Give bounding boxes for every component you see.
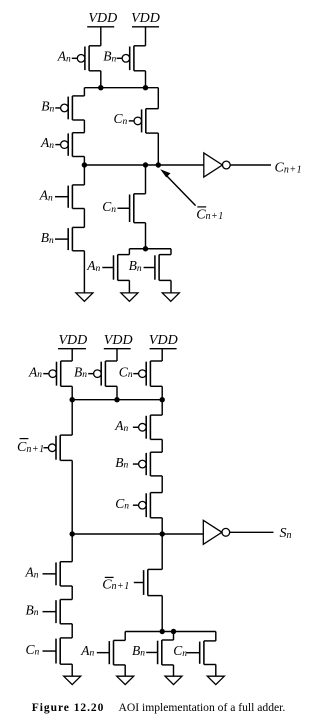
junction dot node S right — [160, 531, 165, 536]
label An (gate of Q15) — [114, 418, 128, 434]
svg-text:An: An — [80, 643, 94, 659]
label An (gate of Q9) — [86, 258, 100, 274]
label An (gate of Q22) — [80, 643, 94, 659]
junction dot node X left — [98, 85, 103, 90]
node S rail — [72, 533, 203, 535]
label Cbar n+1 (node annotation) — [196, 207, 224, 222]
transistor Q14 PMOS Cbar n+1 (left) — [44, 435, 73, 460]
junction dot low node left — [160, 629, 165, 634]
svg-text:Cn: Cn — [114, 111, 128, 127]
svg-text:Cn: Cn — [115, 496, 129, 512]
svg-text:Bn: Bn — [41, 99, 54, 115]
transistor Q22 NMOS An (bottom row) — [97, 640, 125, 665]
transistor Q23 NMOS Bn (bottom row) — [146, 640, 173, 665]
transistor Q20 NMOS Cn (left series) — [43, 638, 73, 664]
label Cn (gate of Q13) — [119, 364, 133, 380]
wire Q18 source to Q19 drain — [71, 586, 73, 600]
wire Q23 source to ground — [173, 665, 175, 676]
transistor Q21 NMOS Cbar n+1 (middle) — [134, 569, 162, 595]
transistor Q3 PMOS Bn (left series) — [55, 96, 84, 120]
label An (gate of Q18) — [25, 565, 39, 581]
svg-text:VDD: VDD — [131, 11, 160, 26]
svg-text:Figure 12.20: Figure 12.20 — [32, 702, 105, 714]
wire Q15 drain to Q16 source — [161, 439, 163, 452]
transistor Q8 NMOS Cn (middle) — [118, 194, 146, 223]
wire VDD to Q12 source — [116, 349, 118, 361]
label Bn (gate of Q16) — [115, 455, 128, 471]
svg-text:VDD: VDD — [149, 333, 178, 348]
junction dot node Y middle — [114, 397, 119, 402]
label Bn (gate of Q7) — [41, 230, 54, 246]
transistor Q10 NMOS Bn (bottom pair right) — [144, 255, 171, 281]
svg-text:Cn+1: Cn+1 — [102, 577, 130, 592]
ground (bottom circuit right) — [207, 676, 224, 684]
transistor Q15 PMOS An (right series) — [133, 415, 162, 439]
wire Q24 source to ground — [215, 665, 217, 677]
svg-text:VDD: VDD — [88, 11, 117, 26]
transistor Q1 PMOS An (top left) — [72, 46, 101, 71]
wire Q16 drain to Q17 source — [161, 476, 163, 493]
ground (bottom circuit left) — [117, 676, 134, 684]
svg-text:VDD: VDD — [59, 333, 88, 348]
wire node X down to Q5 source — [157, 88, 159, 109]
svg-text:AOI implementation of a full a: AOI implementation of a full adder. — [119, 701, 286, 714]
wire Q21 source to low node — [161, 596, 163, 632]
wire Q1 drain to node X — [100, 71, 102, 88]
label An (gate of Q11) — [28, 364, 42, 380]
wire Q3 drain to Q4 source — [83, 120, 85, 133]
junction dot node S left — [70, 531, 75, 536]
wire Q10 source to ground — [170, 280, 172, 293]
caption Figure 12.20 — [32, 701, 286, 714]
VDD supply bar (bottom middle) — [104, 348, 131, 350]
wire Q22 source to ground — [124, 665, 126, 676]
wire VDD to Q13 source — [161, 349, 163, 361]
label Cbar n+1 (gate of Q21) — [102, 577, 130, 592]
transistor Q12 PMOS Bn (top row) — [88, 361, 117, 386]
transistor Q5 PMOS Cn — [129, 109, 159, 133]
svg-text:An: An — [57, 49, 71, 65]
pair node rail (A or B) — [129, 248, 171, 250]
ground (top circuit middle) — [121, 293, 138, 301]
svg-text:Cn: Cn — [26, 642, 40, 658]
wire Q13 drain through node Y to Q15 — [161, 386, 163, 415]
wire low node to Q23 drain — [173, 632, 175, 641]
svg-text:Bn: Bn — [115, 455, 128, 471]
svg-text:An: An — [25, 565, 39, 581]
power label VDD (bottom, left) — [59, 333, 88, 348]
wire U2 output to Sn — [230, 531, 274, 533]
wire Q9 source to ground — [128, 280, 130, 293]
label An (gate of Q1) — [57, 49, 71, 65]
output node rail (Cbar n+1) — [84, 164, 203, 166]
svg-text:An: An — [39, 188, 53, 204]
transistor Q18 NMOS An (left series) — [43, 562, 73, 586]
label Bn (gate of Q2) — [103, 49, 116, 65]
svg-text:Cn+1: Cn+1 — [17, 440, 45, 455]
wire Q4 drain to output node — [83, 157, 85, 166]
wire Q8 source to pair node — [145, 223, 147, 249]
wire Q14 drain to node S — [71, 460, 73, 534]
power label VDD (top circuit, right) — [131, 11, 160, 26]
junction dot pair node — [143, 246, 148, 251]
ground (bottom circuit far left) — [64, 676, 81, 684]
wire Q7 source to ground — [83, 251, 85, 293]
wire low node to Q24 drain — [215, 632, 217, 641]
transistor Q2 PMOS Bn (top right) — [117, 46, 146, 71]
ground (top circuit left) — [76, 293, 93, 301]
svg-text:Bn: Bn — [26, 602, 39, 618]
junction dot node X right — [143, 85, 148, 90]
svg-text:Bn: Bn — [129, 258, 142, 274]
wire Q6 source to Q7 drain — [83, 209, 85, 228]
wire VDD to Q11 source — [71, 349, 73, 361]
label Cn (gate of Q24) — [173, 643, 187, 659]
inverter U2 bubble — [222, 528, 230, 536]
ground (top circuit right) — [162, 293, 179, 301]
transistor Q6 NMOS An (left series) — [55, 185, 84, 209]
svg-text:An: An — [114, 418, 128, 434]
VDD supply bar (top left) — [87, 26, 114, 28]
inverter U1 bubble — [222, 161, 230, 169]
wire Q11 drain through node Y to Q14 — [71, 386, 73, 435]
wire Q2 drain to node X — [145, 71, 147, 88]
transistor Q13 PMOS Cn (top row) — [133, 361, 162, 386]
svg-text:An: An — [28, 364, 42, 380]
power label VDD (bottom, middle) — [104, 333, 133, 348]
wire node S to Q21 drain — [161, 534, 163, 569]
label Cn (gate of Q5) — [114, 111, 128, 127]
svg-text:Cn+1: Cn+1 — [275, 161, 303, 176]
label Cn+1 (carry output) — [275, 161, 303, 176]
low node rail — [125, 631, 216, 633]
node Y rail — [72, 399, 162, 401]
wire Q5 drain to output node — [157, 133, 159, 165]
svg-text:Bn: Bn — [41, 230, 54, 246]
label Cn (gate of Q8) — [102, 199, 116, 215]
junction dot output rail mid — [143, 162, 148, 167]
VDD supply bar (top right) — [132, 26, 159, 28]
wire low node to Q22 drain — [124, 632, 126, 641]
wire Q17 drain to node S — [161, 518, 163, 534]
transistor Q19 NMOS Bn (left series) — [43, 600, 73, 624]
label Bn (gate of Q3) — [41, 99, 54, 115]
wire output node to Q6 drain — [83, 165, 85, 185]
label Bn (gate of Q12) — [74, 364, 87, 380]
wire pair node to Q10 drain — [170, 249, 172, 255]
junction dot output rail right — [156, 162, 161, 167]
label Bn (gate of Q23) — [132, 643, 145, 659]
power label VDD (top circuit, left) — [88, 11, 117, 26]
wire VDD bar to Q2 source — [145, 27, 147, 46]
junction dot output rail left — [82, 162, 87, 167]
junction dot node Y left — [70, 397, 75, 402]
svg-text:Bn: Bn — [103, 49, 116, 65]
transistor Q11 PMOS An (bottom circuit top row) — [43, 361, 72, 386]
label Bn (gate of Q10) — [129, 258, 142, 274]
svg-text:Cn: Cn — [102, 199, 116, 215]
label An (gate of Q4) — [40, 135, 54, 151]
VDD supply bar (bottom right) — [150, 348, 177, 350]
label Bn (gate of Q19) — [26, 602, 39, 618]
svg-text:Cn+1: Cn+1 — [196, 207, 224, 222]
label Sn (sum output) — [280, 526, 292, 541]
svg-text:VDD: VDD — [104, 333, 133, 348]
wire Q12 drain to node Y — [116, 386, 118, 399]
label Cn (gate of Q20) — [26, 642, 40, 658]
transistor Q4 PMOS An (left series) — [55, 133, 84, 157]
inverter U2 triangle — [203, 520, 222, 544]
power label VDD (bottom, right) — [149, 333, 178, 348]
wire output node to Q8 drain — [145, 165, 147, 194]
wire Q19 source to Q20 drain — [71, 624, 73, 638]
svg-text:An: An — [40, 135, 54, 151]
ground (bottom circuit middle) — [165, 676, 182, 684]
transistor Q17 PMOS Cn (right series) — [133, 493, 162, 518]
svg-text:Cn: Cn — [119, 364, 133, 380]
svg-text:Bn: Bn — [132, 643, 145, 659]
wire Q20 source to ground — [71, 664, 73, 676]
transistor Q7 NMOS Bn (left series) — [55, 227, 84, 250]
transistor Q24 NMOS Cn (bottom row) — [187, 641, 216, 665]
svg-text:Cn: Cn — [173, 643, 187, 659]
svg-text:Bn: Bn — [74, 364, 87, 380]
transistor Q16 PMOS Bn (right series) — [133, 452, 162, 476]
junction dot low node right — [171, 629, 176, 634]
label Cbar n+1 (gate of Q14) — [17, 439, 45, 456]
svg-text:An: An — [86, 258, 100, 274]
label An (gate of Q6) — [39, 188, 53, 204]
arrow pointing to Cbar n+1 node — [160, 169, 195, 205]
transistor Q9 NMOS An (bottom pair left) — [102, 255, 129, 281]
node X rail — [84, 87, 158, 89]
wire pair node to Q9 drain — [128, 249, 130, 255]
junction dot node Y right — [160, 397, 165, 402]
wire node X down to Q3 source — [83, 88, 85, 96]
label Cn (gate of Q17) — [115, 496, 129, 512]
wire node S to Q18 drain — [71, 534, 73, 562]
VDD supply bar (bottom left) — [58, 348, 86, 350]
wire U1 output to Cn+1 — [230, 164, 271, 166]
wire VDD bar to Q1 source — [100, 27, 102, 46]
svg-text:Sn: Sn — [280, 526, 292, 541]
inverter U1 triangle — [204, 153, 223, 177]
